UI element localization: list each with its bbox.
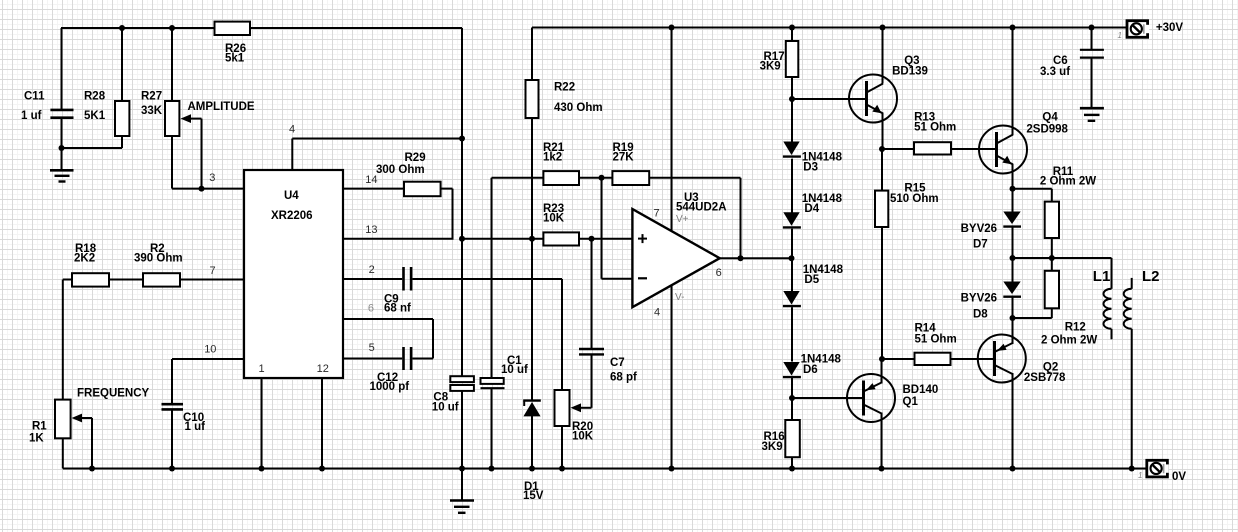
svg-text:1k2: 1k2: [543, 152, 562, 164]
svg-text:7: 7: [654, 207, 660, 219]
svg-text:BYV26: BYV26: [961, 293, 997, 305]
ground symbol top-left: [50, 170, 74, 181]
wire R14 to Q2 base: [951, 358, 994, 360]
wire net-B horizontal to R21: [492, 177, 544, 179]
svg-text:BYV26: BYV26: [961, 223, 997, 235]
svg-text:544UD2A: 544UD2A: [676, 202, 727, 214]
wire pin 3 of U4: [172, 188, 244, 190]
svg-text:C7: C7: [610, 357, 625, 369]
svg-text:4: 4: [289, 123, 295, 135]
wire pin 10 of U4: [172, 358, 244, 360]
wire Q3 emitter vertical: [882, 113, 884, 150]
svg-text:2 Ohm 2W: 2 Ohm 2W: [1040, 175, 1096, 187]
wire C9 right to R20 corner: [412, 278, 562, 280]
wire R27 wiper vertical: [201, 119, 203, 189]
labels L1 L2: [1093, 268, 1160, 285]
wire D3 to D4: [791, 159, 793, 213]
wire R29 right: [441, 188, 453, 190]
svg-text:1K: 1K: [29, 433, 44, 445]
transistor Q1 BD140: [847, 374, 895, 422]
R1 wiper arrowhead: [72, 414, 82, 423]
junction output to diode chain: [789, 255, 795, 261]
junction C1 on bus: [489, 466, 495, 472]
svg-text:XR2206: XR2206: [271, 210, 313, 222]
junction D7 / output row: [1010, 255, 1016, 261]
wire D6 to Q1 base node: [791, 378, 793, 398]
svg-text:D6: D6: [803, 364, 818, 376]
svg-text:0V: 0V: [1172, 471, 1186, 483]
junction op-amp V+ on top bus: [669, 25, 675, 31]
svg-text:1 uf: 1 uf: [21, 110, 42, 122]
wire R12 bottom stub: [1051, 308, 1053, 318]
svg-text:R22: R22: [554, 81, 575, 93]
junction Q1 collector on bus: [879, 466, 885, 472]
wire C11 bottom: [61, 118, 63, 149]
svg-text:3K9: 3K9: [762, 441, 783, 453]
junction Q1 base / diode chain: [789, 395, 795, 401]
svg-text:6: 6: [368, 303, 374, 315]
op-amp minus sign: [638, 277, 647, 279]
resistor R26 5k1: [215, 22, 251, 35]
capacitor C12 plates: [404, 347, 412, 370]
wire node to D8: [1012, 258, 1014, 283]
resistor R23 10K: [543, 232, 579, 245]
svg-text:D4: D4: [804, 203, 819, 215]
svg-text:7: 7: [210, 265, 216, 277]
wire R29 down: [452, 189, 454, 240]
wire Q2 collector vertical: [1012, 373, 1014, 469]
capacitor C11 plates: [50, 110, 73, 118]
wire bottom 0V bus: [63, 468, 1147, 470]
svg-text:6: 6: [716, 267, 722, 279]
svg-text:300 Ohm: 300 Ohm: [376, 164, 425, 176]
wire Q1 emitter vertical: [881, 359, 883, 384]
svg-text:14: 14: [365, 174, 377, 186]
svg-text:10 uf: 10 uf: [501, 364, 528, 376]
wire R1 bottom: [62, 438, 64, 468]
svg-text:L1: L1: [1093, 268, 1111, 285]
wire R17 bottom to Q3 base node: [791, 77, 793, 99]
wire node to D7: [1012, 189, 1014, 213]
transistor Q3 BD139: [849, 75, 897, 123]
transistor Q4 2SD998: [979, 126, 1027, 174]
svg-text:D8: D8: [973, 309, 988, 321]
junction pin1 on bus: [259, 466, 265, 472]
junction pin3/wiper node: [199, 186, 205, 192]
wire R11 bottom stub: [1051, 238, 1053, 258]
wire op-amp V- pin4 vertical: [671, 286, 673, 469]
wire C6 top stub: [1091, 28, 1093, 50]
svg-text:U4: U4: [284, 190, 299, 202]
junction D8 / R12 / Q2 emitter: [1010, 315, 1016, 321]
wire net-A vertical x462: [461, 28, 463, 377]
wire top-right +30V bus: [532, 27, 1127, 29]
junction pin13 net at x462: [459, 236, 465, 242]
wire R16 to bus: [791, 457, 793, 468]
svg-text:V-: V-: [675, 292, 684, 303]
wire output node to D5: [791, 258, 793, 291]
svg-text:13: 13: [365, 224, 377, 236]
wire D8 to Q2 node: [1012, 297, 1014, 318]
junction R16 on bus: [789, 466, 795, 472]
wire R23 to op-amp plus: [579, 238, 632, 240]
wire pin13 net to R23: [461, 238, 543, 240]
wire R27 top stub: [171, 28, 173, 101]
wire D5 to D6: [791, 307, 793, 361]
diode D7 BYV26: [1003, 212, 1021, 227]
resistor R18 2K2: [72, 273, 109, 286]
svg-text:C11: C11: [24, 90, 45, 102]
svg-text:2 Ohm 2W: 2 Ohm 2W: [1041, 335, 1097, 347]
junction D1 on bus: [529, 466, 535, 472]
junction pin4 net at x462: [459, 136, 465, 142]
junction L2 on bus: [1129, 466, 1135, 472]
wire op-amp output: [720, 257, 792, 259]
svg-text:4: 4: [654, 307, 660, 319]
wire net-B vertical x491: [491, 178, 493, 378]
svg-text:27K: 27K: [613, 152, 635, 164]
svg-text:V+: V+: [676, 214, 689, 225]
wire R28 top stub: [121, 28, 123, 101]
svg-text:D5: D5: [804, 274, 819, 286]
junction pin12 on bus: [319, 466, 325, 472]
wire R17 top stub: [791, 28, 793, 42]
transistor Q2 2SB778: [978, 335, 1026, 383]
inductor L1: [1104, 289, 1112, 329]
svg-text:2SD998: 2SD998: [1026, 123, 1068, 135]
junction C6 on top bus: [1089, 25, 1095, 31]
svg-text:510 Ohm: 510 Ohm: [890, 193, 939, 205]
wire top-left bus y28: [61, 27, 462, 29]
wire R28 bottom to C11 node: [62, 147, 123, 149]
diode D8 BYV26: [1003, 282, 1021, 297]
svg-text:FREQUENCY: FREQUENCY: [77, 387, 150, 399]
wire C12 right: [412, 358, 433, 360]
wire pin 4 stub up: [291, 139, 293, 171]
junction Q2 collector on bus: [1010, 466, 1016, 472]
junction plus-input node: [589, 236, 595, 242]
wire R21 to R19: [579, 177, 612, 179]
ground symbol bottom center: [450, 501, 474, 513]
svg-text:D3: D3: [803, 162, 818, 174]
resistor R19 27K: [612, 171, 649, 185]
svg-text:10 uf: 10 uf: [432, 401, 459, 413]
junction on top bus at R28: [119, 25, 125, 31]
wire node to R16: [791, 398, 793, 420]
svg-text:3K9: 3K9: [760, 61, 781, 73]
wire R12 bottom to node: [1013, 317, 1052, 319]
svg-text:1: 1: [1118, 31, 1122, 40]
wire pin 2 of U4: [343, 278, 402, 280]
op-amp plus sign: [638, 234, 647, 243]
junction Q4 collector on top bus: [1010, 25, 1016, 31]
wire pin 13 of U4: [343, 238, 454, 240]
svg-text:3.3 uf: 3.3 uf: [1040, 66, 1070, 78]
wire C11 top: [61, 28, 63, 110]
svg-text:+30V: +30V: [1156, 22, 1184, 34]
wire plus node down to C7: [591, 239, 593, 348]
wire L1 bottom stub: [1111, 329, 1113, 339]
junction op-amp V- on bus: [669, 466, 675, 472]
wire R19 to feedback corner: [649, 177, 740, 179]
wire pin6 corner down: [432, 319, 434, 359]
wire R11 top stub: [1051, 189, 1053, 202]
svg-text:1000 pf: 1000 pf: [370, 381, 410, 393]
IC U4 XR2206 box: [244, 170, 343, 378]
junction C11/R28/ground node: [59, 145, 65, 151]
svg-text:15V: 15V: [523, 490, 544, 502]
svg-text:AMPLITUDE: AMPLITUDE: [188, 101, 255, 113]
junction Q3 base / diode chain: [789, 96, 795, 102]
wire R27 wiper horizontal: [189, 118, 202, 120]
wire D1 anode to bus: [531, 416, 533, 469]
wire Q4 collector vertical: [1012, 28, 1014, 136]
wire Q1 collector vertical: [881, 413, 883, 469]
svg-text:5: 5: [369, 342, 375, 354]
resistor R13 51 Ohm: [914, 142, 951, 154]
wire C7 to R20 wiper: [579, 407, 592, 409]
svg-text:51 Ohm: 51 Ohm: [914, 121, 956, 133]
wire Q1 base: [792, 397, 863, 399]
resistor R11 2 Ohm 2W: [1045, 202, 1059, 238]
svg-text:R28: R28: [84, 90, 106, 102]
resistor R17 3K9: [786, 41, 799, 77]
R27 wiper arrowhead: [181, 114, 192, 123]
op-amp U3 544UD2A triangle: [632, 209, 719, 307]
diode D6 1N4148: [783, 362, 801, 377]
wire pin 7 net segment R18-R2: [109, 279, 143, 281]
resistor R2 390 Ohm: [143, 273, 180, 286]
svg-text:R12: R12: [1065, 322, 1086, 334]
potentiometer R1 1K body: [55, 400, 71, 439]
wire C10 bottom vertical: [171, 410, 173, 469]
svg-text:R27: R27: [141, 90, 162, 102]
wire node to D3: [791, 99, 793, 143]
wire pin 1 stub: [261, 378, 263, 469]
wire L2 top stub: [1131, 278, 1133, 289]
wire Q3 base: [792, 98, 866, 100]
diode D5 1N4148: [783, 291, 801, 306]
wire R1 top: [62, 280, 64, 400]
capacitor C10 plates: [162, 404, 184, 409]
svg-text:1 uf: 1 uf: [185, 421, 206, 433]
svg-text:390 Ohm: 390 Ohm: [134, 253, 183, 265]
junction Q3 emitter / R13 / R15: [879, 146, 885, 152]
svg-text:5K1: 5K1: [84, 110, 106, 122]
svg-text:10K: 10K: [572, 431, 594, 443]
resistor R21 1k2: [543, 171, 579, 185]
svg-text:3: 3: [209, 172, 215, 184]
wire pin 7 net segment R2-U4: [180, 279, 244, 281]
wire ground stub bottom center: [461, 469, 463, 501]
junction Q4 emitter / R11 / D7: [1010, 186, 1016, 192]
svg-text:33K: 33K: [141, 105, 163, 117]
wire L1 top corner: [1111, 258, 1113, 289]
resistor R14 51 Ohm: [915, 353, 951, 365]
junction feedback at output: [738, 255, 744, 261]
zener diode D1 15V: [523, 401, 541, 417]
svg-text:2K2: 2K2: [74, 253, 95, 265]
svg-text:BD139: BD139: [892, 65, 928, 77]
wire L2 bottom to bus: [1131, 329, 1133, 469]
potentiometer R28 5K1 body: [115, 101, 129, 136]
potentiometer R27 33K body: [165, 101, 179, 136]
svg-text:1: 1: [259, 363, 265, 375]
svg-text:D7: D7: [973, 239, 988, 251]
wire D4 to output node: [791, 229, 793, 259]
wire R22 top corner: [531, 28, 533, 81]
wire C8 bottom: [461, 392, 463, 469]
svg-text:5k1: 5k1: [225, 52, 245, 64]
potentiometer R20 10K body: [555, 390, 570, 426]
svg-text:68 pf: 68 pf: [610, 371, 637, 383]
svg-text:10K: 10K: [543, 213, 565, 225]
terminal +30V: [1127, 21, 1149, 38]
svg-text:12: 12: [317, 363, 329, 375]
svg-text:68 nf: 68 nf: [384, 302, 411, 314]
wire minus-input horizontal: [602, 278, 633, 280]
svg-text:BD140: BD140: [903, 384, 939, 396]
capacitor C6 plates: [1080, 50, 1104, 58]
diode D4 1N4148: [783, 212, 801, 227]
junction Q3 collector on top bus: [880, 25, 886, 31]
wire C1 bottom: [491, 389, 493, 469]
resistor R15 510 Ohm: [875, 191, 888, 227]
wire Q2 emitter vertical: [1012, 318, 1014, 344]
wire pin 5 of U4: [343, 358, 402, 360]
junction ground node on bus: [459, 466, 465, 472]
svg-text:Q1: Q1: [903, 396, 919, 408]
wire C6 bottom stub: [1091, 59, 1093, 108]
wire R22 bottom vertical to D1: [531, 118, 533, 400]
wire minus-input vertical: [601, 178, 603, 279]
svg-text:430 Ohm: 430 Ohm: [554, 102, 603, 114]
wire pin 4 horizontal: [292, 138, 462, 140]
junction R17 on top bus: [789, 25, 795, 31]
junction R11 / R12 on output row: [1049, 255, 1055, 261]
resistor R16 3K9: [785, 420, 800, 457]
wire node to R15 top: [881, 149, 883, 191]
junction D1 net on pin13 row: [529, 236, 535, 242]
terminal 0V: [1147, 460, 1169, 477]
wire Q4 emitter vertical: [1012, 164, 1014, 189]
wire R12 top stub: [1051, 258, 1053, 271]
R20 wiper arrowhead: [571, 403, 582, 412]
junction R20 on bus: [559, 466, 565, 472]
wire R27 bottom to pin3: [171, 136, 173, 189]
wire C10 top vertical: [171, 359, 173, 403]
diode D3 1N4148: [783, 142, 801, 157]
wire R28 bottom stub: [121, 136, 123, 148]
wire node to R11 corner: [1013, 188, 1052, 190]
wire R1 wiper vertical: [91, 418, 93, 469]
wire R20 bottom: [561, 426, 563, 469]
wire pin 6 of U4: [343, 318, 433, 320]
junction R15 / R14 / Q1 emitter: [879, 356, 885, 362]
wire R20 top vertical: [561, 279, 563, 390]
wire node to R13: [882, 148, 914, 150]
junction R21/R19 node: [599, 175, 605, 181]
wire ground stub below C11 node: [61, 148, 63, 170]
wire pin 14 of U4: [343, 188, 404, 190]
wire pin 12 stub: [321, 378, 323, 469]
wire node to R14: [882, 358, 915, 360]
svg-text:10: 10: [204, 343, 216, 355]
svg-text:2SB778: 2SB778: [1024, 372, 1066, 384]
wire R15 bottom vertical: [881, 227, 883, 359]
capacitor C1 plates (electrolytic): [481, 378, 504, 384]
wire R13 to Q4 base: [951, 148, 995, 150]
wire C7 bottom vertical: [591, 355, 593, 408]
inductor L2: [1124, 289, 1132, 329]
junction R1 wiper on bus: [89, 466, 95, 472]
svg-text:2: 2: [369, 264, 375, 276]
wire pin 7 net segment R18 left: [63, 279, 72, 281]
capacitor C8 plates (electrolytic hollow): [450, 376, 474, 382]
svg-text:R29: R29: [405, 152, 426, 164]
wire op-amp V+ pin7 vertical: [671, 28, 673, 232]
svg-text:51 Ohm: 51 Ohm: [915, 333, 957, 345]
wire Q3 collector vertical: [882, 28, 884, 84]
svg-text:1: 1: [1138, 471, 1142, 480]
capacitor C7 plates: [579, 349, 604, 354]
resistor R29 300 Ohm: [404, 182, 441, 197]
wire D7 to output-row node: [1012, 227, 1014, 258]
junction C10 on bus: [169, 466, 175, 472]
junction on top bus at R27: [169, 25, 175, 31]
resistor R22 430 Ohm: [526, 80, 539, 118]
svg-text:Q4: Q4: [1042, 112, 1058, 124]
wire output row to L1: [1013, 257, 1112, 259]
wire R1 wiper horizontal: [80, 417, 92, 419]
svg-text:L2: L2: [1142, 268, 1160, 285]
wire feedback vertical: [740, 178, 742, 258]
capacitor C9 plates: [404, 267, 412, 291]
resistor R12 2 Ohm 2W: [1045, 271, 1059, 309]
svg-text:R1: R1: [32, 420, 47, 432]
ground symbol below C6: [1080, 108, 1104, 121]
